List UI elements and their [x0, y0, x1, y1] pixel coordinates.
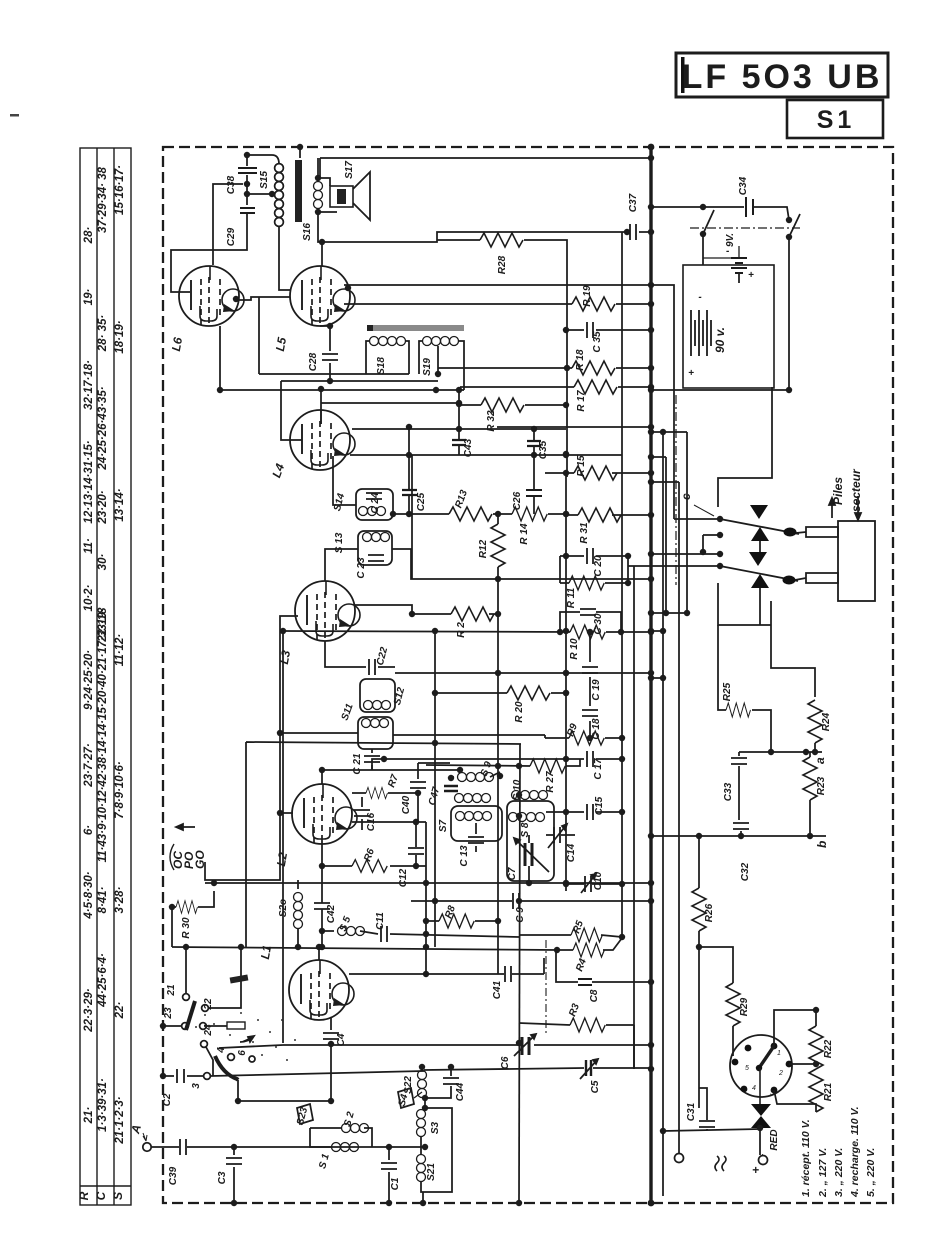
wire S11 rail y735	[393, 735, 545, 738]
svg-text:C5: C5	[590, 1080, 601, 1093]
resistor R14	[493, 507, 569, 545]
svg-text:44·25·6·4·: 44·25·6·4·	[97, 953, 109, 1008]
svg-text:11·12·: 11·12·	[114, 634, 126, 667]
wire S15 tap	[244, 191, 275, 197]
svg-text:11·: 11·	[83, 538, 95, 554]
chassis dashed frame	[163, 147, 893, 1203]
resistor R7	[352, 773, 421, 799]
wire y455 rail	[350, 452, 622, 458]
wire stub y678	[648, 675, 666, 681]
IF transformer S12 box	[360, 679, 407, 712]
wire ground rail y883	[205, 880, 654, 886]
wire bleeder vertical x634	[633, 566, 635, 1069]
capacitor C34	[738, 176, 753, 217]
svg-text:C2: C2	[162, 1093, 173, 1106]
coil S7 box	[438, 806, 502, 841]
svg-text:R 31: R 31	[579, 522, 590, 544]
svg-text:R29: R29	[739, 997, 750, 1016]
subtitle box S1	[787, 100, 883, 138]
svg-text:2. „ 127 V.: 2. „ 127 V.	[817, 1148, 829, 1198]
svg-text:C33: C33	[723, 782, 734, 801]
capacitor C37	[624, 193, 654, 240]
resistor R6	[319, 847, 406, 872]
wire L5 top stub	[321, 242, 323, 266]
svg-text:C28: C28	[308, 352, 319, 371]
svg-text:S21: S21	[426, 1163, 437, 1181]
coil S19	[419, 337, 464, 391]
battery 9V	[703, 233, 754, 281]
resistor R26	[692, 888, 715, 947]
resistor R2	[355, 605, 501, 638]
svg-text:C34: C34	[738, 176, 749, 195]
svg-text:5. „ 220 V.: 5. „ 220 V.	[865, 1148, 877, 1197]
svg-text:11·43·9·10·12·42·38·14·14·15·2: 11·43·9·10·12·42·38·14·14·15·20·40·21·17…	[97, 607, 109, 862]
svg-text:C31: C31	[686, 1102, 697, 1121]
svg-text:C15: C15	[594, 796, 605, 815]
wire S13 to L3 grid	[325, 549, 358, 581]
svg-text:+: +	[748, 270, 754, 281]
capacitor C19	[582, 629, 602, 701]
coil S22	[403, 1064, 427, 1098]
capacitor C25	[402, 490, 427, 517]
wire S14 to R13	[390, 511, 449, 517]
table header letters R C S	[77, 1191, 125, 1200]
contact triangle 1	[750, 505, 768, 519]
svg-text:+: +	[752, 1163, 759, 1177]
switch frame mark 2	[230, 974, 249, 983]
svg-text:6·: 6·	[83, 825, 95, 835]
wire stub y482	[648, 479, 679, 485]
capacitor C33	[723, 752, 747, 820]
variable capacitor C14	[546, 824, 577, 862]
capacitor C26	[512, 490, 542, 514]
wire L4 grid lead	[281, 381, 302, 440]
wire filament feed y207	[648, 204, 789, 220]
svg-text:C 9: C 9	[515, 907, 526, 923]
capacitor C8	[556, 950, 654, 1002]
wire node a row	[739, 749, 822, 755]
brace OC PO GO	[170, 844, 174, 870]
svg-text:C14: C14	[566, 843, 577, 862]
wire selector top feed	[774, 1007, 819, 1046]
svg-text:C39: C39	[168, 1166, 179, 1185]
wire AF rail y374	[259, 297, 409, 374]
wire L4 top stub	[318, 386, 324, 424]
variable capacitor C10	[563, 871, 625, 893]
contact triangle 2	[751, 527, 769, 541]
coil S5	[322, 915, 378, 936]
wire stub y457	[648, 454, 666, 460]
speaker S17	[318, 161, 370, 220]
oscillator coil S9	[448, 760, 503, 782]
coil S20	[278, 880, 303, 947]
svg-text:90 v.: 90 v.	[713, 327, 727, 353]
flag S4	[397, 1088, 422, 1108]
svg-text:C 35: C 35	[592, 331, 603, 353]
coil S1	[310, 1128, 359, 1170]
switch linkage dash-dot	[690, 227, 800, 229]
title box LF 503 UB	[676, 53, 888, 97]
svg-text:C7: C7	[507, 867, 518, 880]
svg-text:R 2: R 2	[456, 622, 467, 638]
svg-text:R 18: R 18	[575, 349, 586, 371]
node top rail bus	[648, 155, 654, 161]
wire switch bottom frame	[718, 583, 815, 697]
resistor R20	[432, 686, 569, 723]
capacitor C13	[459, 823, 484, 867]
svg-text:R 27: R 27	[545, 771, 556, 793]
switch wave lever 2	[191, 1041, 424, 1089]
capacitor C28	[308, 323, 338, 381]
switch S-batt left	[700, 204, 714, 237]
svg-text:7·8·9·10·6·: 7·8·9·10·6·	[114, 761, 126, 819]
IF transformer S13 box	[334, 531, 392, 565]
capacitor C18	[582, 699, 602, 740]
svg-text:+: +	[688, 368, 694, 379]
capacitor C3	[217, 1144, 242, 1206]
resistor R9	[545, 722, 625, 745]
wire battery minus lead	[703, 258, 739, 283]
svg-text:C 21: C 21	[352, 753, 363, 775]
svg-text:R 19: R 19	[582, 285, 593, 307]
capacitor C2	[160, 1069, 203, 1106]
table column C values	[97, 166, 109, 1131]
label OC PO GO	[171, 850, 207, 869]
transformer S18 S19 core	[367, 325, 464, 331]
wire bleeder vertical x622	[621, 232, 623, 937]
wire x459 vertical	[456, 387, 462, 429]
svg-text:S16: S16	[302, 223, 313, 241]
node c label	[679, 493, 693, 500]
wire long vertical x283	[282, 631, 284, 1043]
capacitor C38	[226, 152, 257, 205]
switch linkage vertical dash-dot	[675, 395, 677, 585]
coil S16	[302, 158, 323, 241]
svg-text:C41: C41	[492, 980, 503, 999]
svg-text:L1: L1	[258, 944, 274, 961]
svg-text:C26: C26	[512, 491, 523, 510]
coil S18	[366, 337, 409, 375]
tube L1	[258, 944, 354, 1020]
wire L4 screen y429	[352, 424, 566, 432]
svg-text:b: b	[815, 841, 829, 848]
wire AVC rail x246	[246, 740, 521, 947]
wire x426 vertical	[423, 822, 429, 977]
wire L2 screen y822	[352, 819, 426, 825]
antenna terminal A	[128, 1123, 151, 1151]
svg-text:C: C	[94, 1191, 108, 1200]
wire L1 top	[318, 947, 320, 960]
svg-text:C10: C10	[593, 871, 604, 890]
svg-text:R 10: R 10	[569, 638, 580, 660]
svg-text:R12: R12	[478, 539, 489, 558]
wire L1 anode y974	[349, 958, 544, 974]
svg-text:C8: C8	[589, 989, 600, 1002]
svg-text:23: 23	[163, 1007, 174, 1020]
tube L5	[273, 266, 355, 352]
switch piles lever 2	[720, 566, 798, 585]
wire stub y631	[648, 628, 666, 634]
resistor R27	[426, 759, 580, 793]
arrow piles	[829, 498, 835, 518]
resistor R13	[449, 488, 492, 521]
battery 90V cells	[688, 292, 727, 379]
wire switch feed top	[648, 387, 792, 507]
wire L4 cathode to S14	[333, 456, 356, 505]
svg-text:C 20: C 20	[593, 555, 604, 577]
battery 90V box	[683, 265, 774, 388]
wire S16 primary to top border	[297, 144, 303, 158]
mains plug prong 2	[795, 573, 838, 583]
coil S3 box	[417, 1098, 453, 1192]
svg-text:C32: C32	[740, 862, 751, 881]
svg-text:4: 4	[752, 1085, 756, 1092]
wire y1101	[235, 1080, 331, 1104]
svg-text:R 11: R 11	[566, 587, 577, 608]
resistor R28	[437, 233, 567, 477]
wire L2 anode y770	[319, 767, 463, 784]
svg-text:c: c	[679, 493, 693, 500]
variable capacitor C6	[500, 1034, 536, 1069]
wire node b row	[648, 833, 826, 839]
svg-text:C25: C25	[416, 492, 427, 511]
resistor R19	[560, 285, 654, 311]
capacitor C1	[381, 1144, 401, 1206]
svg-text:C3: C3	[217, 1171, 228, 1184]
svg-text:9V.: 9V.	[725, 233, 736, 247]
capacitor C30	[557, 609, 621, 635]
wire L6 top tap	[213, 181, 250, 265]
oscillator box S10	[507, 779, 554, 881]
wire AF rail y389	[217, 387, 464, 393]
svg-text:C40: C40	[401, 795, 412, 814]
svg-text:32·17·18·: 32·17·18·	[83, 360, 95, 410]
resistor R22	[809, 1026, 834, 1069]
IF transformer S14 box	[332, 489, 393, 520]
wire x498 vertical lower	[495, 579, 501, 974]
svg-text:21: 21	[166, 984, 177, 997]
wire rail y947	[172, 944, 557, 950]
contact triangle 4	[751, 574, 769, 588]
svg-text:C29: C29	[226, 227, 237, 246]
tube L6	[169, 266, 244, 352]
svg-text:22·3·29·: 22·3·29·	[83, 988, 95, 1033]
wire L4 plate feed x497	[497, 424, 654, 430]
wire speaker return	[315, 209, 627, 245]
svg-text:C44: C44	[455, 1082, 466, 1101]
switch S-batt right	[786, 214, 800, 390]
svg-text:9·24·25·20·: 9·24·25·20·	[83, 650, 95, 710]
svg-text:L2: L2	[274, 851, 290, 868]
svg-text:L5: L5	[273, 336, 289, 353]
resistor R12 vertical	[478, 514, 505, 582]
resistor R10	[569, 625, 605, 660]
coil S21	[417, 1147, 438, 1206]
wire L3 to L2 grid vertical	[205, 616, 298, 880]
wire stub y613	[648, 610, 690, 616]
coil S15	[247, 155, 290, 290]
wire grid rail y579	[392, 549, 654, 582]
switch wave lever 1	[160, 944, 244, 1037]
tube L2	[274, 784, 357, 867]
svg-text:S19: S19	[422, 358, 433, 376]
voltage selector	[730, 1035, 792, 1104]
resistor R8	[423, 904, 498, 928]
wire pivot feed y566	[628, 563, 723, 569]
svg-text:S 13: S 13	[334, 532, 345, 553]
svg-text:13·14·: 13·14·	[114, 488, 126, 521]
mains plug body	[838, 521, 875, 601]
capacitor C32	[733, 823, 751, 881]
svg-text:3. „ 220 V.: 3. „ 220 V.	[833, 1148, 845, 1197]
wire S18 return rail	[219, 326, 221, 390]
svg-text:C 24: C 24	[370, 492, 381, 514]
capacitor C42	[314, 841, 337, 947]
capacitor C15	[546, 796, 625, 820]
svg-text:R 15: R 15	[576, 455, 587, 477]
resistor R31	[566, 508, 654, 544]
capacitor C16	[354, 797, 377, 831]
svg-text:R23: R23	[816, 776, 827, 795]
svg-text:R 14: R 14	[519, 523, 530, 545]
resistor R4	[554, 938, 622, 973]
wire S19 tap down	[435, 346, 534, 377]
resistor R30	[169, 880, 217, 947]
svg-text:R: R	[77, 1191, 91, 1200]
svg-text:23·7·27·: 23·7·27·	[83, 743, 95, 788]
contact triangle 3	[749, 552, 767, 566]
tube L3	[277, 581, 360, 665]
svg-text:C12: C12	[398, 868, 409, 887]
svg-text:4: 4	[216, 1047, 227, 1054]
wire pivot feed y554	[648, 551, 723, 557]
svg-text:C1: C1	[390, 1177, 401, 1190]
svg-text:24: 24	[203, 1024, 214, 1037]
capacitor C20	[560, 548, 631, 583]
svg-text:R 32: R 32	[486, 410, 497, 432]
svg-text:S15: S15	[259, 171, 270, 189]
svg-text:3·28·: 3·28·	[114, 886, 126, 913]
svg-text:4. recharge. 110 V.: 4. recharge. 110 V.	[849, 1106, 861, 1198]
svg-text:24·25·26·43·35·: 24·25·26·43·35·	[97, 386, 109, 470]
main HT bus	[648, 144, 655, 1207]
svg-text:C 13: C 13	[459, 845, 470, 867]
wire x566 vertical lower	[563, 451, 569, 891]
svg-text:23·20·: 23·20·	[97, 490, 109, 524]
wire L5 anode to bus rail	[344, 282, 674, 519]
coil S8	[509, 813, 545, 838]
svg-text:28· 35·: 28· 35·	[97, 315, 109, 353]
resistor R15	[545, 455, 654, 480]
svg-text:5: 5	[745, 1065, 749, 1072]
parts table frame	[80, 148, 131, 1205]
table column S values	[114, 165, 126, 1145]
terminal AC	[675, 1153, 684, 1163]
resistor R23	[803, 752, 827, 836]
svg-text:R 17: R 17	[576, 390, 587, 412]
switch piles lever 1	[720, 519, 799, 537]
resistor R32	[459, 398, 569, 432]
svg-text:R 30: R 30	[181, 917, 192, 939]
label Piles secteur	[831, 468, 863, 512]
svg-text:C43: C43	[463, 438, 474, 457]
wire grid rail y759	[372, 756, 584, 770]
capacitor C47	[427, 786, 458, 807]
wire selector right pin to divider	[789, 1061, 819, 1067]
svg-text:1·3·39·31·: 1·3·39·31·	[97, 1078, 109, 1132]
svg-text:10·2·: 10·2·	[83, 584, 95, 611]
label AC tilde	[715, 1156, 726, 1171]
wire x435 vertical	[434, 631, 436, 947]
variable capacitor C7	[507, 835, 549, 886]
wire x409 vertical	[409, 427, 412, 579]
wire pivot feed y535	[700, 532, 723, 555]
svg-text:19·: 19·	[83, 289, 95, 306]
capacitor C12	[398, 819, 426, 887]
rectifier RED	[751, 1104, 780, 1155]
capacitor C17	[587, 751, 625, 780]
svg-text:12·13·14·31·15·: 12·13·14·31·15·	[83, 440, 95, 523]
svg-text:R24: R24	[821, 712, 832, 731]
switch frame mark	[227, 1022, 245, 1029]
svg-text:C 17: C 17	[593, 758, 604, 780]
IF transformer S11 box	[340, 702, 393, 749]
svg-text:R26: R26	[704, 903, 715, 922]
svg-text:R21: R21	[823, 1082, 834, 1101]
svg-text:6: 6	[237, 1050, 248, 1056]
capacitor C35	[527, 429, 549, 489]
capacitor C43	[452, 429, 474, 457]
resistor R24	[808, 700, 832, 752]
svg-text:S7: S7	[438, 819, 449, 832]
label voltage list	[800, 1106, 877, 1198]
wire ground drop x519	[516, 744, 522, 1206]
resistor R11	[560, 556, 631, 608]
wire anode rail y631	[280, 628, 654, 635]
capacitor C36	[563, 322, 654, 353]
resistor R29	[726, 983, 750, 1056]
wire S11 left rail	[280, 732, 358, 734]
svg-text:1. récept. 110 V.: 1. récept. 110 V.	[800, 1119, 812, 1197]
capacitor C21	[352, 749, 380, 775]
svg-text:37·29·34· 38: 37·29·34· 38	[97, 166, 109, 232]
svg-text:S: S	[111, 1192, 125, 1200]
wire pivot feed y519	[674, 516, 723, 522]
svg-text:LF 5O3 UB: LF 5O3 UB	[682, 58, 883, 96]
svg-text:C37: C37	[628, 193, 639, 212]
svg-text:R28: R28	[497, 255, 508, 274]
svg-text:3: 3	[191, 1083, 202, 1089]
svg-text:C42: C42	[326, 904, 337, 923]
coil S9 lower	[455, 794, 491, 803]
resistor R18	[534, 349, 654, 375]
wire right section verticals	[663, 432, 699, 1196]
svg-text:28·: 28·	[83, 227, 95, 245]
svg-text:1: 1	[777, 1050, 781, 1057]
capacitor C39	[151, 1139, 234, 1185]
arrow band selector	[176, 824, 195, 830]
svg-text:a: a	[813, 757, 827, 764]
svg-text:18·19·: 18·19·	[114, 320, 126, 353]
node a label	[813, 757, 827, 764]
svg-text:S18: S18	[376, 357, 387, 375]
wire y1043	[219, 1042, 654, 1048]
svg-text:C6: C6	[500, 1056, 511, 1069]
svg-text:C 23: C 23	[356, 557, 367, 579]
wire R26 to R29	[696, 944, 733, 1108]
svg-text:15·16·17·: 15·16·17·	[114, 165, 126, 215]
arrow tuning	[240, 1036, 254, 1042]
